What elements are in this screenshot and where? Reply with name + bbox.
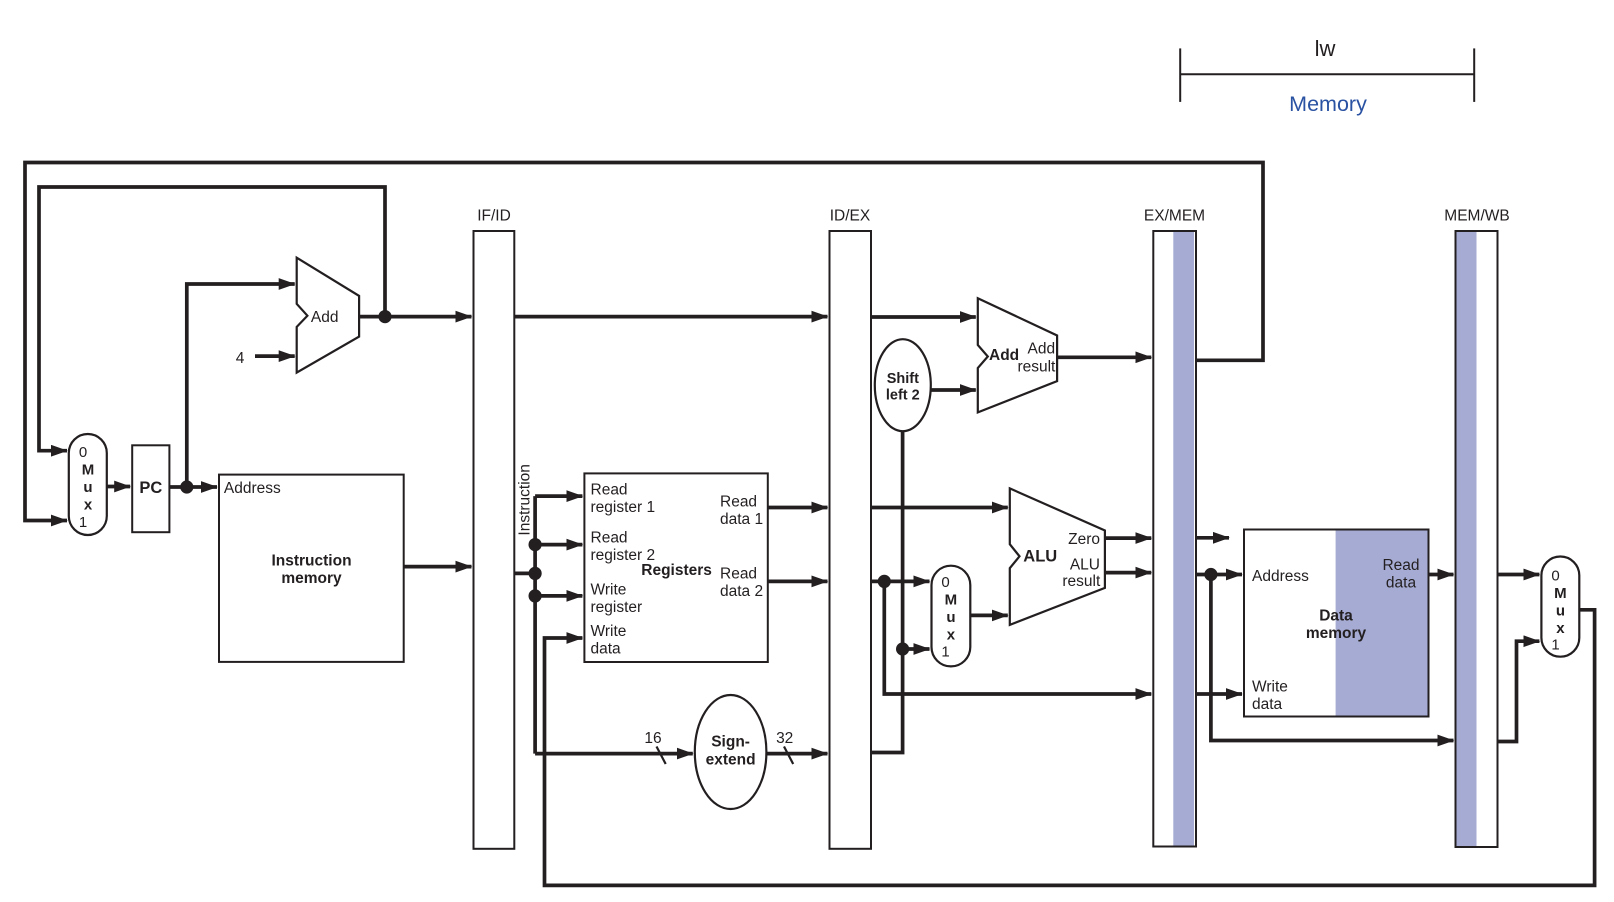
wire Zero stub out of EX/MEM <box>1196 536 1229 540</box>
junction dot read data 2 <box>878 575 891 588</box>
sign-extend oval <box>695 695 767 809</box>
wire ALU Zero to EX/MEM <box>1105 536 1151 540</box>
svg-text:u: u <box>83 479 92 496</box>
svg-text:ID/EX: ID/EX <box>830 208 871 225</box>
svg-text:ALU: ALU <box>1070 557 1100 574</box>
label Sign-extend <box>706 734 756 769</box>
adder Add1 <box>297 258 359 373</box>
wire PC+4 feedback to Mux M1 input 0 <box>39 187 385 451</box>
svg-text:Sign-: Sign- <box>711 734 750 751</box>
mux M1 <box>69 434 107 535</box>
svg-text:x: x <box>1556 620 1565 637</box>
svg-text:Shift: Shift <box>887 371 919 387</box>
wire Mux M2 output to ALU bottom input <box>970 614 1008 618</box>
svg-text:IF/ID: IF/ID <box>477 208 511 225</box>
svg-text:data 1: data 1 <box>720 511 763 528</box>
pipeline register EX/MEM <box>1153 231 1196 847</box>
label Read register 2 <box>591 530 656 565</box>
svg-text:PC: PC <box>139 479 162 497</box>
junction dot ALU result <box>1204 568 1217 581</box>
svg-text:Write: Write <box>1252 679 1288 696</box>
svg-text:EX/MEM: EX/MEM <box>1144 208 1205 225</box>
svg-text:Read: Read <box>1382 557 1419 574</box>
wire instruction from IF/ID to junction <box>514 572 535 576</box>
label Data memory <box>1306 608 1367 643</box>
svg-text:MEM/WB: MEM/WB <box>1444 208 1509 225</box>
junction dot write register <box>529 589 542 602</box>
wire Read data 2 to ID/EX <box>768 580 828 584</box>
svg-text:ALU: ALU <box>1023 548 1057 566</box>
svg-text:x: x <box>84 497 93 514</box>
wire data memory Read data to MEM/WB <box>1429 573 1454 577</box>
wire Read data 1 to ID/EX <box>768 506 828 510</box>
registers box <box>584 473 767 662</box>
mux M3 <box>1541 557 1579 657</box>
label Write register <box>591 582 643 617</box>
wire ALU result from MEM/WB to Mux M3 input 1 <box>1498 641 1540 741</box>
label Read register 1 <box>591 482 656 517</box>
junction dot immediate to mux M2 <box>896 642 909 655</box>
label Instruction memory <box>271 552 351 587</box>
wire Read data from MEM/WB to Mux M3 input 0 <box>1498 573 1540 577</box>
svg-text:data: data <box>591 641 622 658</box>
label Shift left 2 <box>886 371 920 404</box>
svg-text:left 2: left 2 <box>886 388 920 404</box>
bus width slash 16 <box>657 747 666 765</box>
label Mux M1 <box>79 444 94 531</box>
wire constant 4 to Add1 bottom input <box>255 354 295 358</box>
svg-text:Add: Add <box>311 309 339 326</box>
wire Add1 output to IF/ID <box>359 315 471 319</box>
svg-text:Zero: Zero <box>1068 531 1100 548</box>
svg-text:Address: Address <box>224 480 281 497</box>
wire Mux M1 output to PC <box>107 485 130 489</box>
wire Read data 2 from ID/EX to Mux M2 input 0 <box>871 580 930 584</box>
svg-text:Write: Write <box>591 582 627 599</box>
label Write data (data memory) <box>1252 679 1288 714</box>
wire PC value up to Add1 top input <box>187 284 295 487</box>
pipeline register IF/ID <box>474 231 515 849</box>
svg-text:0: 0 <box>941 574 949 591</box>
label Read data 2 <box>720 566 763 601</box>
svg-text:register 1: register 1 <box>591 499 656 516</box>
svg-text:Data: Data <box>1319 608 1353 625</box>
wire sign-extended immediate from ID/EX up to Shift left 2 <box>871 431 903 752</box>
svg-text:0: 0 <box>1551 568 1559 585</box>
wire branch feedback EX/MEM to Mux M1 input 1 <box>25 163 1263 521</box>
svg-text:Instruction: Instruction <box>271 552 351 569</box>
svg-text:extend: extend <box>706 752 756 769</box>
wire ALU result from EX/MEM to data memory Address <box>1196 573 1242 577</box>
wire sign-extend output to ID/EX <box>766 752 827 756</box>
wire Read data 1 from ID/EX to ALU top input <box>871 506 1008 510</box>
pipeline register ID/EX <box>830 231 872 849</box>
label Write data (registers) <box>591 623 627 658</box>
wire Mux M3 output back to Registers Write data <box>545 610 1595 886</box>
svg-text:Add: Add <box>989 347 1019 364</box>
svg-text:Write: Write <box>591 623 627 640</box>
junction dot instruction bus <box>529 567 542 580</box>
shift left 2 oval <box>875 339 931 431</box>
wire instruction to Read register 1 <box>535 494 582 498</box>
adder Add2 <box>978 298 1057 412</box>
wire PC+4 from IF/ID to ID/EX <box>514 315 827 319</box>
svg-text:result: result <box>1017 358 1056 375</box>
wire ALU result to EX/MEM <box>1105 571 1151 575</box>
label Read data 1 <box>720 494 763 529</box>
wire ALU result down to MEM/WB <box>1211 575 1454 741</box>
stage bracket lw <box>1180 48 1474 102</box>
wire write data from EX/MEM to data memory <box>1196 692 1242 696</box>
svg-text:Read: Read <box>720 566 757 583</box>
svg-text:data: data <box>1386 575 1417 592</box>
junction dot Add1 output <box>378 310 391 323</box>
svg-text:memory: memory <box>281 570 342 587</box>
wire instruction to Read register 2 <box>535 543 582 547</box>
svg-text:4: 4 <box>236 350 245 367</box>
svg-text:u: u <box>946 609 955 626</box>
wire Add2 result to EX/MEM <box>1057 355 1151 359</box>
label Read data (data memory) <box>1382 557 1419 592</box>
bus width slash 32 <box>784 747 793 765</box>
wire instruction memory output to IF/ID <box>404 565 472 569</box>
label Mux M2 <box>941 574 957 661</box>
svg-text:data 2: data 2 <box>720 583 763 600</box>
svg-text:Memory: Memory <box>1289 92 1367 116</box>
svg-text:1: 1 <box>941 644 949 661</box>
svg-text:Instruction: Instruction <box>517 464 534 536</box>
svg-text:1: 1 <box>79 514 87 531</box>
svg-text:x: x <box>947 627 956 644</box>
data memory box <box>1244 530 1429 717</box>
svg-text:Address: Address <box>1252 568 1309 585</box>
ALU U1 <box>1010 488 1105 625</box>
wire sign-extended immediate to Mux M2 input 1 <box>903 647 930 651</box>
label Add result <box>1017 341 1056 376</box>
svg-text:Add: Add <box>1028 341 1056 358</box>
register PC <box>132 445 169 532</box>
svg-text:M: M <box>945 592 958 609</box>
svg-text:32: 32 <box>776 730 793 747</box>
svg-text:Registers: Registers <box>641 562 712 579</box>
svg-text:1: 1 <box>1551 637 1559 654</box>
svg-text:register: register <box>591 599 643 616</box>
wire Read data 2 down to EX/MEM write data <box>884 581 1151 694</box>
svg-text:0: 0 <box>79 444 87 461</box>
instruction memory box <box>219 475 404 662</box>
svg-text:Read: Read <box>591 482 628 499</box>
wire PC output to instruction memory Address <box>169 485 217 489</box>
svg-text:Read: Read <box>591 530 628 547</box>
wire Shift left 2 output to Add2 bottom input <box>931 388 976 392</box>
svg-text:memory: memory <box>1306 625 1367 642</box>
svg-text:lw: lw <box>1315 36 1336 61</box>
svg-text:u: u <box>1556 603 1565 620</box>
label ALU result <box>1062 557 1101 591</box>
svg-text:M: M <box>1554 585 1567 602</box>
label Mux M3 <box>1551 568 1566 654</box>
svg-text:16: 16 <box>644 730 661 747</box>
wire instruction vertical bus <box>533 496 537 753</box>
junction dot read register 2 <box>529 538 542 551</box>
junction dot PC output <box>180 480 193 493</box>
svg-text:Read: Read <box>720 494 757 511</box>
svg-text:M: M <box>82 462 95 479</box>
svg-text:data: data <box>1252 696 1283 713</box>
pipeline register MEM/WB <box>1456 231 1498 847</box>
wire instruction to Write register <box>535 594 582 598</box>
wire immediate to sign-extend <box>535 752 693 756</box>
mux M2 <box>932 566 971 667</box>
svg-text:result: result <box>1062 573 1101 590</box>
wire PC+4 from ID/EX to Add2 top input <box>871 315 976 319</box>
